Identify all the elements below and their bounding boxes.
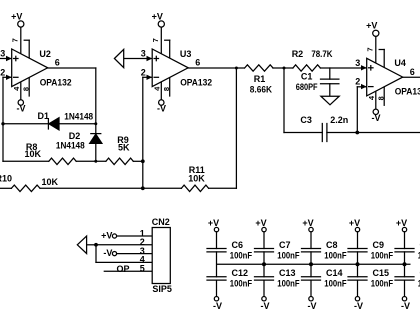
svg-text:D2: D2: [69, 131, 81, 141]
svg-text:OP: OP: [117, 264, 130, 274]
svg-text:5: 5: [140, 264, 145, 274]
svg-text:8.66K: 8.66K: [250, 85, 273, 95]
svg-text:100nF: 100nF: [277, 250, 300, 260]
svg-text:CN2: CN2: [152, 217, 170, 227]
svg-text:C9: C9: [373, 240, 385, 250]
svg-text:-V: -V: [103, 248, 112, 258]
svg-text:C12: C12: [232, 268, 249, 278]
svg-text:100nF: 100nF: [324, 279, 347, 289]
svg-text:1N4148: 1N4148: [64, 112, 93, 122]
svg-text:1N4148: 1N4148: [56, 141, 85, 151]
svg-text:+V: +V: [349, 218, 360, 228]
svg-text:100nF: 100nF: [230, 250, 253, 260]
svg-text:C13: C13: [279, 268, 296, 278]
svg-text:-V: -V: [401, 301, 410, 311]
svg-text:100nF: 100nF: [277, 279, 300, 289]
svg-text:2.2n: 2.2n: [330, 115, 348, 125]
svg-text:+V: +V: [396, 218, 407, 228]
svg-text:C7: C7: [279, 240, 291, 250]
svg-text:5K: 5K: [118, 142, 130, 152]
svg-text:680PF: 680PF: [296, 82, 318, 92]
svg-text:D1: D1: [38, 111, 50, 121]
svg-text:+V: +V: [302, 218, 313, 228]
svg-text:78.7K: 78.7K: [311, 49, 333, 59]
svg-text:C1: C1: [301, 71, 313, 81]
svg-text:C3: C3: [300, 115, 312, 125]
svg-text:-V: -V: [213, 301, 222, 311]
svg-text:+V: +V: [208, 218, 219, 228]
svg-text:R2: R2: [292, 49, 304, 59]
svg-text:U3: U3: [180, 49, 192, 59]
svg-text:100nF: 100nF: [371, 250, 394, 260]
svg-text:R10: R10: [0, 174, 12, 184]
svg-text:C8: C8: [326, 240, 338, 250]
svg-text:SIP5: SIP5: [152, 284, 172, 294]
svg-text:+V: +V: [101, 231, 112, 241]
svg-text:C14: C14: [326, 268, 343, 278]
svg-text:U4: U4: [394, 58, 406, 68]
svg-text:100nF: 100nF: [324, 250, 347, 260]
svg-text:10K: 10K: [42, 177, 59, 187]
svg-text:+V: +V: [255, 218, 266, 228]
svg-text:-V: -V: [261, 301, 270, 311]
svg-text:100nF: 100nF: [371, 279, 394, 289]
svg-text:C6: C6: [232, 240, 244, 250]
svg-text:-V: -V: [354, 301, 363, 311]
svg-text:U2: U2: [39, 49, 51, 59]
svg-text:10K: 10K: [25, 149, 42, 159]
svg-text:C15: C15: [373, 268, 390, 278]
svg-text:100nF: 100nF: [230, 279, 253, 289]
svg-text:R1: R1: [254, 74, 266, 84]
svg-text:-V: -V: [308, 301, 317, 311]
svg-text:10K: 10K: [188, 174, 205, 184]
